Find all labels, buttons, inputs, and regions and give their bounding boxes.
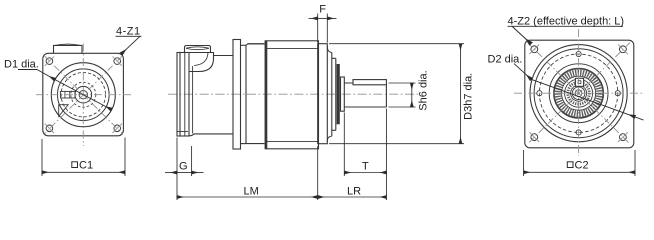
svg-text:4-Z1: 4-Z1 xyxy=(116,26,141,38)
svg-text:D3h7 dia.: D3h7 dia. xyxy=(462,73,474,120)
svg-text:LM: LM xyxy=(244,186,259,198)
svg-text:Sh6 dia.: Sh6 dia. xyxy=(417,70,429,110)
svg-text:G: G xyxy=(179,161,188,173)
svg-text:LR: LR xyxy=(347,186,361,198)
svg-text:D2 dia.: D2 dia. xyxy=(488,53,523,65)
svg-text:C2: C2 xyxy=(575,160,589,172)
svg-text:C1: C1 xyxy=(79,160,93,172)
svg-text:T: T xyxy=(362,161,369,173)
svg-text:4-Z2 (effective depth: L): 4-Z2 (effective depth: L) xyxy=(508,16,625,28)
svg-text:D1 dia.: D1 dia. xyxy=(4,59,39,71)
svg-text:F: F xyxy=(319,3,326,15)
